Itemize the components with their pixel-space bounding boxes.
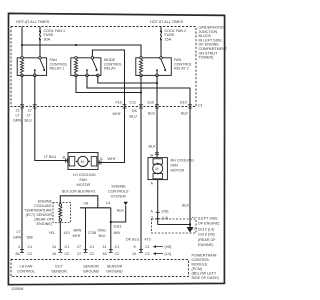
svg-text:CONTROL: CONTROL — [192, 258, 210, 262]
wire relay3 switch output down — [156, 75, 158, 106]
node ground junction — [189, 223, 191, 225]
svg-text:BLK: BLK — [149, 145, 157, 149]
wire LT BLU relay1 switch to LH fan motor B — [35, 75, 68, 160]
svg-text:LT BLU: LT BLU — [44, 155, 56, 159]
svg-text:M: M — [81, 160, 84, 164]
svg-text:30A: 30A — [44, 37, 51, 41]
svg-text:C1: C1 — [28, 245, 33, 249]
junction block pin 21 — [16, 105, 25, 113]
svg-text:BLK: BLK — [117, 209, 125, 213]
svg-text:15A: 15A — [165, 37, 172, 41]
svg-text:LT: LT — [27, 114, 32, 118]
svg-text:473: 473 — [145, 238, 151, 242]
svg-text:DK: DK — [132, 109, 138, 113]
wire ORG/BLK sensor ground to PCM — [110, 208, 112, 252]
svg-text:386: 386 — [27, 236, 33, 240]
svg-text:27: 27 — [77, 245, 81, 249]
svg-text:27: 27 — [77, 252, 81, 256]
PCM pin 4/84 — [16, 245, 33, 256]
svg-text:COOLANT: COOLANT — [34, 204, 53, 208]
pin A connector ticks LH motor — [99, 161, 101, 165]
PCM pin K/10 with connector legend — [132, 245, 171, 256]
svg-text:POWERTRAIN: POWERTRAIN — [192, 254, 217, 258]
svg-text:ORG: ORG — [98, 229, 107, 233]
svg-text:C2: C2 — [28, 252, 33, 256]
svg-text:C2: C2 — [90, 252, 95, 256]
svg-text:GRN: GRN — [13, 236, 22, 240]
svg-text:(L4): (L4) — [165, 252, 172, 256]
wire relay3 coil down — [140, 75, 142, 106]
svg-text:C2: C2 — [115, 252, 120, 256]
svg-text:C1: C1 — [115, 245, 120, 249]
pin B connector ticks RH motor — [155, 153, 159, 155]
svg-text:21: 21 — [16, 109, 20, 113]
svg-text:GROUND: GROUND — [83, 270, 100, 274]
pin A (V8) / G (L4) connector ticks — [151, 210, 169, 221]
svg-text:BLK (OR BLK/WHT): BLK (OR BLK/WHT) — [62, 190, 95, 194]
wire fuse F2 to relay 3 switch — [160, 40, 162, 58]
svg-text:ENGINE: ENGINE — [112, 185, 127, 189]
svg-text:C11: C11 — [130, 100, 137, 104]
wire BLK pin E10 to RH fan motor — [156, 107, 158, 158]
svg-text:ENGINE): ENGINE) — [37, 222, 52, 226]
svg-text:26: 26 — [52, 252, 56, 256]
relay K2 MODE CONTROL RELAY — [71, 57, 122, 77]
ground G112/G116 — [187, 227, 194, 233]
border frame — [8, 13, 224, 284]
svg-text:RELAY: RELAY — [104, 67, 116, 71]
wire ENGINE CONTROLS SYSTEM to splice S111 — [111, 206, 126, 223]
svg-text:BLK: BLK — [181, 112, 189, 116]
wire relay2 NO contact to relay3 switch output — [98, 75, 157, 83]
svg-text:HOT AT ALL TIMES: HOT AT ALL TIMES — [150, 20, 184, 24]
wire fuse F1 to relay 1 switch — [39, 40, 41, 58]
svg-text:LT: LT — [17, 230, 22, 234]
arrow to ENGINE CONTROLS SYSTEM — [108, 185, 129, 206]
wire bus to relay coils — [22, 45, 141, 58]
svg-text:A: A — [151, 182, 154, 186]
svg-text:C1: C1 — [90, 245, 95, 249]
svg-text:ENGINE): ENGINE) — [198, 243, 213, 247]
svg-text:MOTOR: MOTOR — [171, 169, 185, 173]
svg-text:(ECT) SENSOR: (ECT) SENSOR — [26, 213, 53, 217]
svg-text:LT: LT — [16, 114, 21, 118]
wire RH fan motor to ground splice — [157, 180, 159, 225]
PCM dashed box — [11, 260, 189, 277]
label ECT sensor — [24, 200, 52, 227]
svg-text:LH FAN: LH FAN — [20, 265, 33, 269]
fuse F2 COOL FAN 2 15A — [160, 27, 186, 42]
wire ground bus — [158, 224, 190, 226]
svg-text:41: 41 — [103, 245, 107, 249]
svg-text:TEMPERATURE: TEMPERATURE — [24, 209, 52, 213]
svg-text:(REAR OF: (REAR OF — [34, 218, 52, 222]
svg-text:BLU: BLU — [25, 119, 33, 123]
svg-text:(REAR OF: (REAR OF — [198, 238, 216, 242]
wire BRN/WHT sensor ground to PCM — [85, 208, 87, 252]
svg-text:C2: C2 — [65, 252, 70, 256]
svg-text:WHT: WHT — [108, 157, 117, 161]
svg-text:(BELOW LEFT: (BELOW LEFT — [192, 272, 217, 276]
svg-text:V8: V8 — [84, 202, 89, 206]
svg-text:BLK: BLK — [148, 112, 156, 116]
svg-text:12: 12 — [28, 109, 32, 113]
svg-text:SENSOR: SENSOR — [83, 265, 99, 269]
motor M1 LH COOLING FAN MOTOR — [63, 153, 117, 188]
svg-text:FAN: FAN — [80, 178, 88, 182]
pin B connector ticks LH motor — [65, 159, 67, 163]
svg-text:BLK: BLK — [99, 234, 107, 238]
svg-text:YEL: YEL — [49, 231, 56, 235]
svg-text:18: 18 — [103, 252, 107, 256]
svg-text:G112 (L4): G112 (L4) — [198, 228, 214, 232]
svg-text:ECT: ECT — [55, 265, 63, 269]
svg-text:410: 410 — [64, 231, 70, 235]
svg-text:A: A — [100, 157, 103, 161]
svg-text:K: K — [134, 245, 137, 249]
svg-text:RELAY 1: RELAY 1 — [50, 67, 65, 71]
svg-text:SENSOR: SENSOR — [51, 270, 67, 274]
node coil junction — [140, 91, 142, 93]
svg-text:CONTROL: CONTROL — [17, 270, 35, 274]
svg-text:GRN: GRN — [13, 119, 22, 123]
wire B+ feed to relay 1 coil — [21, 27, 23, 58]
svg-text:BLU: BLU — [130, 115, 138, 119]
svg-text:4: 4 — [18, 245, 20, 249]
wire ECT ground BLK (OR BLK/WHT) — [60, 196, 98, 208]
svg-text:GROUND: GROUND — [106, 270, 123, 274]
svg-text:M: M — [155, 167, 158, 171]
svg-text:CONTROLS: CONTROLS — [108, 190, 129, 194]
svg-text:FAN: FAN — [171, 164, 179, 168]
wire sensor ground branch V8/L4 — [80, 207, 111, 209]
label ground location — [192, 217, 220, 248]
svg-text:HOT AT ALL TIMES: HOT AT ALL TIMES — [16, 20, 50, 24]
svg-text:D10: D10 — [180, 100, 187, 104]
svg-text:SENSOR: SENSOR — [107, 265, 123, 269]
svg-text:SYSTEM: SYSTEM — [111, 195, 126, 199]
junction block pin C11 — [130, 100, 144, 108]
svg-text:DK BLU: DK BLU — [126, 238, 140, 242]
svg-text:469: 469 — [114, 231, 120, 235]
fuse F1 COOL FAN 1 30A — [39, 27, 65, 42]
wire LT GRN relay1 coil to PCM — [21, 75, 23, 253]
svg-text:(V8): (V8) — [162, 210, 169, 214]
svg-text:B: B — [151, 154, 154, 158]
svg-text:BRN: BRN — [74, 229, 82, 233]
svg-text:MOTOR: MOTOR — [77, 183, 91, 187]
node bus-relay2 — [75, 44, 77, 46]
svg-text:WHT: WHT — [73, 234, 82, 238]
underhood junction block (dashed box) — [11, 27, 196, 107]
svg-text:RH COOLING: RH COOLING — [171, 159, 194, 163]
svg-text:E10: E10 — [148, 100, 155, 104]
svg-text:OF ENGINE): OF ENGINE) — [198, 222, 220, 226]
svg-text:SIDE OF DASH): SIDE OF DASH) — [192, 276, 219, 280]
svg-text:LH COOLING: LH COOLING — [73, 173, 96, 177]
svg-text:S111: S111 — [114, 225, 122, 229]
relay K1 FAN CONTROL RELAY 1 — [17, 57, 67, 77]
wire BLK pin D10 to ground — [189, 107, 191, 228]
junction block pin D10 — [180, 100, 192, 108]
svg-text:84: 84 — [16, 252, 20, 256]
node splice S111 — [110, 221, 112, 223]
node relay2NO-relay3sw — [156, 82, 158, 84]
wire WHT pin F10 to LH fan motor A — [98, 107, 124, 163]
wire relay coils to DK BLU pin — [76, 75, 141, 92]
PCM pin 27 — [77, 245, 94, 256]
PCM pin 41/18 — [103, 245, 120, 256]
wire relay 2 switch common to WHT pin F10 — [92, 50, 124, 107]
svg-text:10: 10 — [132, 252, 136, 256]
svg-text:C2: C2 — [145, 252, 150, 256]
node bus-relay1 — [21, 44, 23, 46]
wire YEL ECT signal to PCM — [59, 221, 61, 252]
svg-text:TOWER): TOWER) — [199, 56, 214, 60]
junction block pin 12 — [28, 105, 37, 113]
svg-text:MODULE: MODULE — [192, 263, 208, 267]
svg-text:C1: C1 — [65, 245, 70, 249]
svg-text:(V8): (V8) — [165, 245, 172, 249]
svg-text:(LEFT SIDE: (LEFT SIDE — [198, 217, 218, 221]
PCM pin 14/26 — [52, 245, 69, 256]
svg-text:WHT: WHT — [113, 112, 122, 116]
svg-text:L4: L4 — [106, 201, 110, 205]
label underhood junction block location — [199, 26, 228, 60]
svg-text:BLK: BLK — [182, 204, 190, 208]
junction block pin F10 — [116, 100, 127, 108]
wire DK BLU pin C11 to PCM — [140, 107, 142, 253]
wire relay2 NC contact to ground pin — [87, 75, 190, 106]
svg-text:14: 14 — [52, 245, 56, 249]
svg-text:G116 (V8): G116 (V8) — [198, 233, 215, 237]
svg-text:A: A — [151, 210, 154, 214]
svg-text:C1: C1 — [145, 245, 150, 249]
ground area dashed box — [152, 219, 197, 233]
svg-text:C1: C1 — [198, 104, 203, 108]
svg-text:ENGINE: ENGINE — [38, 200, 53, 204]
label PCM — [192, 254, 219, 281]
relay K3 FAN CONTROL RELAY 2 — [136, 57, 192, 77]
junction block pin E10 — [148, 100, 160, 108]
svg-text:(PCM): (PCM) — [192, 267, 203, 271]
svg-text:2738: 2738 — [88, 231, 96, 235]
svg-text:F10: F10 — [116, 100, 122, 104]
svg-text:RELAY 2: RELAY 2 — [174, 67, 189, 71]
sensor ECT (dashed box) — [53, 203, 71, 223]
svg-text:120508: 120508 — [11, 287, 23, 291]
motor M2 RH COOLING FAN MOTOR — [148, 154, 194, 186]
